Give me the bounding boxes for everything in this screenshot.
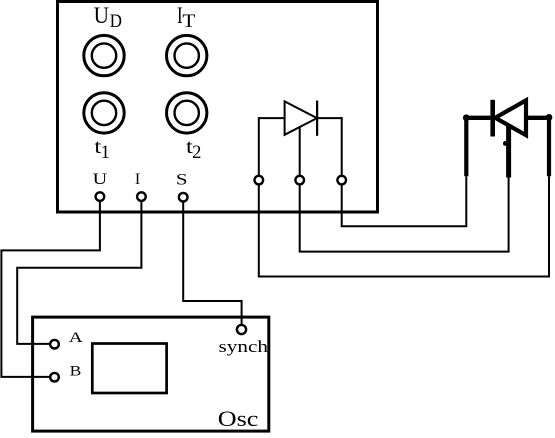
svg-text:U: U — [94, 3, 109, 29]
svg-text:synch: synch — [219, 337, 269, 356]
thyristor V2 left leg — [464, 118, 468, 177]
oscilloscope screen — [92, 344, 166, 394]
wire V1 gate drop — [299, 128, 301, 177]
terminal B — [50, 373, 59, 382]
wire V1 anode to V2 cathode — [259, 176, 549, 276]
device box — [58, 2, 378, 213]
terminal S — [179, 193, 188, 202]
svg-text:A: A — [69, 330, 83, 346]
svg-text:1: 1 — [101, 143, 110, 163]
terminal V1 gate — [295, 176, 304, 185]
terminal synch — [237, 325, 246, 334]
label I_T — [177, 3, 196, 32]
thyristor V2 right leg — [547, 118, 551, 177]
terminal V1 cathode — [337, 176, 346, 185]
label t2 — [186, 136, 201, 163]
thyristor V1 cathode bar — [316, 101, 318, 136]
junction dot left — [463, 114, 470, 121]
terminal U — [96, 192, 105, 201]
jack UD-left — [84, 35, 124, 75]
thyristor V2 anode lead — [464, 116, 490, 120]
label U_D — [94, 3, 122, 32]
terminal V1 anode — [254, 176, 263, 185]
thyristor V2 triangle — [495, 100, 526, 135]
wire cathode drop — [341, 117, 343, 176]
terminal I — [137, 192, 146, 201]
junction dot gate — [503, 141, 508, 146]
svg-text:B: B — [70, 363, 82, 379]
svg-text:U: U — [93, 171, 108, 188]
svg-text:S: S — [176, 172, 188, 189]
jack t1 — [84, 93, 124, 133]
thyristor V2 gate lead — [506, 124, 511, 178]
jack t2 — [167, 93, 207, 133]
oscilloscope box — [33, 317, 269, 431]
jack IT-right — [167, 35, 207, 75]
label t1 — [94, 136, 109, 163]
svg-text:D: D — [110, 11, 122, 32]
thyristor V1 triangle — [285, 101, 317, 134]
wire V1 gate to V2 gate — [300, 178, 509, 252]
wire anode drop — [258, 117, 260, 176]
wire V1 cathode to V2 anode — [342, 176, 467, 226]
junction dot right — [546, 114, 553, 121]
thyristor V2 cathode lead — [526, 116, 551, 120]
wire U to B — [1, 201, 100, 377]
thyristor V1 anode wire — [259, 117, 284, 119]
svg-text:2: 2 — [192, 143, 201, 163]
thyristor V1 cathode wire — [317, 117, 342, 119]
terminal A — [50, 340, 59, 349]
thyristor V2 cathode bar — [490, 100, 495, 137]
svg-text:Osc: Osc — [218, 406, 259, 431]
wire S to synch — [183, 202, 241, 326]
svg-text:T: T — [182, 11, 195, 32]
wire I to A — [17, 201, 141, 344]
svg-text:I: I — [135, 171, 140, 188]
